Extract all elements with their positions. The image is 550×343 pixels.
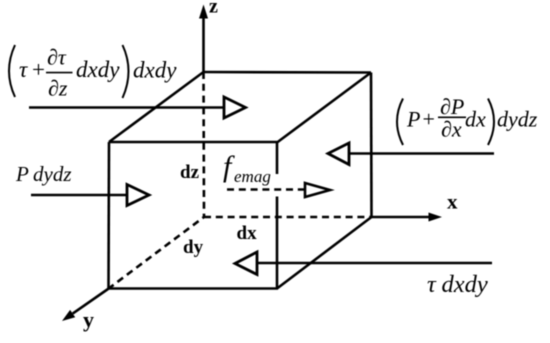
arrow f_emag (dashed, body force) (227, 183, 330, 197)
formula P + dP/dx dx (dydz) top-right (397, 94, 538, 145)
cube front-left edge (107, 142, 110, 289)
cube front-top edge (109, 141, 277, 144)
cube top-back edge (204, 71, 372, 74)
svg-text:dxdy: dxdy (442, 271, 488, 298)
cube front-right edge upper segment (276, 142, 279, 174)
svg-text:dydz: dydz (497, 107, 538, 132)
arrow tau-bottom (into front face) (235, 252, 492, 275)
svg-text:∂P: ∂P (440, 94, 464, 119)
cube front-right edge lower segment (276, 197, 279, 290)
cube bottom-right edge (277, 217, 372, 289)
x axis (372, 213, 443, 222)
svg-text:z: z (209, 0, 218, 18)
cube back-right edge (370, 73, 373, 218)
cube top-right edge (277, 73, 371, 143)
svg-text:y: y (83, 307, 94, 332)
svg-text:P dydz: P dydz (15, 162, 72, 186)
svg-text:dx: dx (237, 223, 258, 244)
svg-text:∂z: ∂z (48, 76, 68, 101)
svg-text:P: P (406, 107, 420, 132)
cube front-bottom edge (108, 287, 278, 290)
cube hidden bottom-left edge (dashed) (108, 217, 204, 289)
svg-text:dxdy: dxdy (133, 58, 177, 83)
svg-text:dy: dy (183, 237, 204, 258)
svg-text:dx: dx (465, 107, 486, 132)
arrow P+dP/dx (into right face) (328, 143, 494, 165)
formula tau + dtau/dz dxdy (dxdy) top-left (9, 45, 177, 101)
arrow P dydz (into left face) (31, 185, 149, 206)
svg-text:+: + (32, 57, 45, 82)
svg-text:+: + (423, 107, 435, 132)
z axis (199, 5, 208, 73)
svg-text:τ: τ (427, 271, 437, 298)
svg-text:dxdy: dxdy (76, 57, 120, 82)
cube top-left edge (109, 72, 204, 142)
svg-text:∂τ: ∂τ (47, 45, 67, 70)
cube hidden back-left edge (dashed) (202, 72, 205, 217)
svg-text:x: x (447, 190, 458, 214)
cube hidden back-bottom edge (dashed) (204, 216, 372, 219)
arrow tau-top (into top face) (29, 97, 246, 118)
svg-text:∂x: ∂x (441, 117, 462, 142)
label f_emag (223, 150, 271, 186)
y axis (62, 289, 108, 321)
svg-text:τ: τ (19, 57, 28, 82)
svg-text:dz: dz (180, 162, 200, 183)
svg-text:emag: emag (234, 167, 271, 186)
